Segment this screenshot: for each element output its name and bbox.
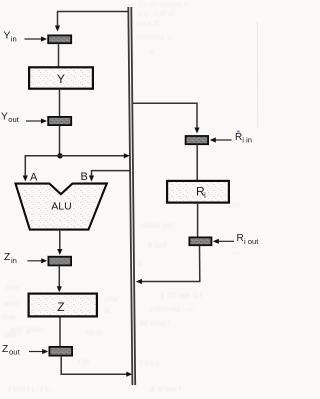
label Ri out [237, 233, 260, 246]
control arrow Yin [25, 36, 48, 41]
bleed-through text left [2, 283, 182, 394]
bleed-through text right middle [138, 201, 240, 328]
svg-text:i in: i in [242, 136, 252, 145]
svg-text:i: i [204, 191, 206, 200]
svg-text:Y: Y [1, 111, 8, 122]
label Zout [2, 344, 20, 357]
wire Yout gate down to junction [59, 126, 61, 156]
bus (double vertical line) [128, 7, 135, 385]
wire Y register to Yout gate [59, 90, 61, 117]
register Ri [167, 181, 229, 203]
wire bus to ALU input B [89, 171, 130, 182]
svg-text:Y: Y [57, 72, 65, 86]
junction node dot [57, 153, 62, 158]
wire register Ri to Ri out gate [197, 204, 199, 237]
wire junction to ALU input A [23, 156, 60, 182]
svg-text:R: R [235, 132, 242, 143]
svg-text:8 tu f: 8 tu f [148, 241, 167, 250]
svg-text:that: that [2, 313, 16, 322]
wire ALU to Zin gate [57, 230, 62, 255]
label Ri in [235, 132, 252, 145]
wire Zin gate to Z register [57, 266, 62, 292]
svg-text:B: B [81, 171, 88, 183]
svg-text:i r st: unese n: i r st: unese n [140, 0, 188, 9]
svg-text:whv: whv [103, 295, 118, 304]
register Y [29, 67, 93, 88]
ALU (trapezoid with notch) [16, 183, 107, 229]
svg-text:, t sini r i . t s .: , t sini r i . t s . [4, 385, 53, 394]
wire junction to bus (arrow right into bus) [60, 153, 130, 158]
bleed-through text top right [136, 0, 188, 56]
svg-text:out: out [8, 115, 19, 124]
wire Zout gate to bus (bottom, arrow right into bus) [61, 356, 132, 377]
svg-text:le: le [104, 306, 111, 315]
svg-text:Z: Z [57, 300, 64, 314]
wire Z register to Zout gate [59, 318, 61, 347]
svg-text:ua e th: ua e th [136, 19, 160, 28]
arrowhead into Yin gate [55, 26, 60, 32]
svg-text:contents : —: contents : — [150, 305, 195, 314]
svg-text:in: in [11, 256, 17, 265]
svg-text:nilsov xst: nilsov xst [140, 221, 174, 230]
svg-text:in: in [11, 35, 17, 44]
label Zin [4, 252, 17, 265]
label Yout [1, 111, 20, 124]
scan artifact: blue speck above R label [237, 131, 239, 133]
wire Yin gate to Y register [58, 44, 60, 67]
wire bus to Yin gate (top) [58, 12, 129, 27]
svg-text:9: 9 [138, 259, 143, 268]
svg-text:r st: r st [78, 357, 90, 366]
svg-text:i out: i out [244, 237, 259, 246]
control arrow Ri out [213, 239, 234, 244]
control arrow Zin [28, 258, 48, 263]
label A [30, 172, 38, 184]
svg-text:any given: any given [10, 325, 44, 334]
gate Ri in [186, 136, 209, 144]
svg-text:mon: mon [4, 299, 20, 308]
wire bus to Ri in gate (right top) [132, 103, 199, 133]
svg-text:snrtmne a: snrtmne a [136, 33, 172, 42]
svg-text:R: R [237, 233, 244, 244]
svg-text:Z: Z [2, 344, 8, 355]
svg-text:Y: Y [4, 31, 11, 42]
svg-text:s o ,s pr e(: s o ,s pr e( [138, 9, 176, 18]
svg-text:W stae 1: W stae 1 [140, 319, 172, 328]
svg-text:ALU: ALU [51, 200, 71, 212]
svg-text:e: e [150, 47, 155, 56]
label Yin [4, 31, 17, 44]
gate Zout [49, 347, 72, 356]
svg-text:out: out [9, 348, 20, 357]
scan artifact: faint blue vertical line right edge [256, 22, 259, 128]
label B [81, 171, 88, 183]
svg-text:—: — [232, 248, 240, 257]
svg-text:Z: Z [4, 252, 10, 263]
svg-text:1 10 tale 0 f: 1 10 tale 0 f [160, 291, 203, 300]
wire Ri out gate to bus (arrow left into bus) [136, 246, 200, 284]
gate Zin [48, 257, 71, 266]
svg-text:t v·l s: t v·l s [140, 359, 159, 368]
register Z [29, 294, 97, 317]
svg-text:4 .0 tair f: 4 .0 tair f [150, 385, 182, 394]
control arrow Zout [29, 349, 48, 354]
svg-text:A: A [30, 172, 38, 184]
wire Ri in gate to register Ri [196, 145, 198, 180]
control arrow Yout [26, 118, 47, 123]
control arrow Ri in [210, 137, 232, 142]
gate Yout [48, 117, 71, 125]
gate Yin [48, 35, 71, 43]
svg-text:on d: on d [86, 328, 102, 337]
gate Ri out [189, 237, 211, 245]
svg-text:cior: cior [6, 283, 19, 292]
